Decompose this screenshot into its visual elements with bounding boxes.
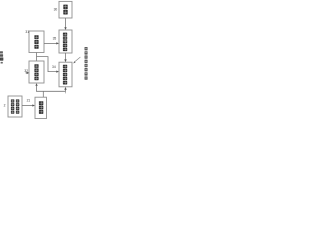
wire: junction up to box C bottom xyxy=(65,89,67,91)
arrowhead into box C top xyxy=(64,59,66,62)
arrowhead into box B left xyxy=(56,42,59,44)
box: bottom-middle unit (H) xyxy=(35,97,47,118)
box: middle-left unit (E) xyxy=(29,31,44,53)
svg-text:31: 31 xyxy=(25,30,29,34)
arrowhead into box C left xyxy=(56,71,59,73)
arrowhead of leader at box C corner xyxy=(73,61,75,63)
svg-text:34: 34 xyxy=(52,65,56,69)
arrowhead up into box C bottom xyxy=(64,87,66,90)
arrow into box F left xyxy=(25,72,29,74)
wire: junction from F bottom down xyxy=(36,85,38,91)
box: middle-right unit (B) xyxy=(59,30,72,53)
wire: box B down to box C xyxy=(65,53,67,60)
wire: horizontal junction line xyxy=(36,90,66,92)
box: lower-right unit (C) xyxy=(59,62,72,87)
wire: top box A down to box B xyxy=(65,18,67,28)
arrowhead into box B top xyxy=(64,27,66,30)
label 30 (left of top box) xyxy=(54,7,58,11)
svg-text:30: 30 xyxy=(54,7,58,11)
label 34 (above branch wire near box C) xyxy=(52,65,56,69)
wire: box E down to box F xyxy=(36,53,38,62)
box: top unit (A) xyxy=(59,1,72,18)
leader line from right annotation to box C xyxy=(74,57,80,62)
annotation: right margin vertical text xyxy=(85,47,88,80)
wire: box G right to box H left xyxy=(22,105,33,107)
wire: branch from E-F wire right and down to box C left xyxy=(37,57,57,72)
label 2 (left of box G) xyxy=(4,104,6,108)
wire: box E right to box B left xyxy=(44,42,57,44)
label 31 (top-left of box E) xyxy=(25,30,29,34)
label 35 (above E-B wire) xyxy=(53,37,57,41)
arrowhead into box H left xyxy=(32,104,35,106)
wire: short stub below junction at C drop xyxy=(65,91,67,93)
wire: junction down to box H top xyxy=(42,91,44,97)
svg-text:35: 35 xyxy=(53,37,57,41)
label 21 (above G-H wire) xyxy=(27,98,31,102)
box: bottom-left unit (G) xyxy=(8,96,22,117)
svg-text:2: 2 xyxy=(4,104,6,108)
arrowhead up into box F bottom xyxy=(35,83,37,86)
box: lower-left unit (F) xyxy=(29,61,44,83)
annotation: left margin vertical text (figure label) xyxy=(0,51,3,63)
label 32 (left of box F) xyxy=(24,69,28,73)
svg-text:21: 21 xyxy=(27,98,31,102)
